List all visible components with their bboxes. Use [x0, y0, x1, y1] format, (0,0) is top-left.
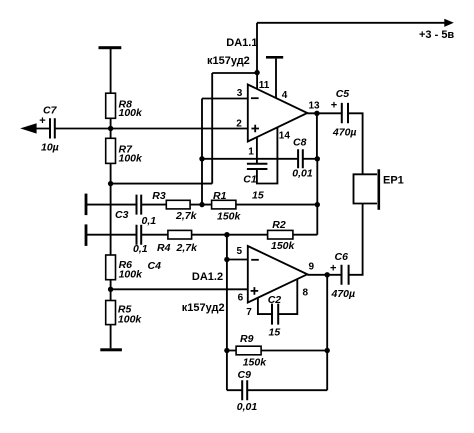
- resistor R1: [212, 190, 242, 223]
- capacitor C9: [237, 369, 258, 413]
- svg-text:9: 9: [309, 261, 315, 272]
- node output 9: [325, 272, 330, 277]
- svg-text:+: +: [331, 100, 337, 112]
- svg-text:150k: 150k: [217, 211, 242, 223]
- wire R4 to R2: [192, 234, 268, 236]
- svg-text:C1: C1: [243, 174, 257, 186]
- node supply DA1.1 pin 11: [254, 70, 259, 75]
- wire vertical x212 down: [211, 73, 213, 184]
- svg-text:15: 15: [252, 189, 264, 201]
- svg-text:R3: R3: [152, 190, 166, 202]
- wire left bus below R7: [110, 184, 112, 255]
- node bias (R8/R7/C7/pin2): [108, 126, 113, 131]
- resistor R6: [106, 255, 143, 280]
- wire pin 11 stub: [256, 73, 258, 89]
- svg-text:100k: 100k: [119, 152, 144, 164]
- resistor R2: [268, 219, 296, 252]
- svg-text:13: 13: [309, 100, 321, 111]
- capacitor C8: [292, 136, 313, 179]
- svg-text:+: +: [330, 262, 336, 274]
- wire output vertical x327 down: [326, 275, 328, 390]
- op-amp DA1.1: [207, 37, 307, 142]
- terminal bar C3 left: [85, 194, 88, 216]
- svg-text:C8: C8: [293, 136, 307, 148]
- capacitor C5: [331, 88, 357, 138]
- svg-text:к157уд2: к157уд2: [182, 302, 225, 314]
- capacitor C2: [268, 294, 282, 339]
- wire output 9 to C6: [307, 274, 341, 276]
- wire bar to C3: [87, 204, 137, 206]
- wire bar to C4: [87, 234, 137, 236]
- svg-text:3: 3: [237, 88, 243, 99]
- svg-text:к157уд2: к157уд2: [207, 55, 250, 67]
- node pin 5 tap: [224, 257, 229, 262]
- wire vertical x227 down: [226, 235, 228, 391]
- capacitor C1: [243, 164, 267, 202]
- wire output vertical x317: [316, 113, 318, 234]
- wire pin 7 stub: [258, 298, 272, 314]
- node R1 right: [315, 202, 320, 207]
- wire C7 to pin 2 of DA1.1: [55, 128, 248, 130]
- wire pin 1 stub: [256, 137, 258, 164]
- wire node to R7 and R7 to bottom node: [110, 129, 112, 184]
- svg-text:C9: C9: [238, 369, 252, 381]
- wire output 13 to C5: [307, 112, 342, 114]
- svg-text:2,7k: 2,7k: [176, 242, 199, 254]
- svg-text:8: 8: [303, 287, 309, 298]
- svg-text:10µ: 10µ: [41, 142, 59, 154]
- svg-text:EP1: EP1: [383, 175, 404, 187]
- terminal bar C4 left: [85, 224, 88, 246]
- wire feedback vertical x202: [201, 99, 203, 205]
- resistor R3: [152, 190, 197, 222]
- wire R8 to node: [110, 118, 112, 128]
- svg-text:6: 6: [238, 292, 244, 303]
- svg-text:150k: 150k: [271, 240, 296, 252]
- svg-text:DA1.2: DA1.2: [192, 271, 223, 283]
- resistor R7: [106, 138, 143, 164]
- wire R5 to ground bar: [110, 325, 112, 349]
- wire R2 right lead: [293, 234, 317, 236]
- svg-text:5: 5: [237, 246, 243, 257]
- svg-text:0,01: 0,01: [237, 401, 258, 413]
- svg-text:100k: 100k: [118, 314, 143, 326]
- svg-text:7: 7: [246, 307, 252, 318]
- svg-text:100k: 100k: [119, 107, 144, 119]
- wire C5 to EP1 top: [348, 113, 363, 174]
- node feedback C8 tap: [199, 156, 204, 161]
- wire top supply rail: [257, 22, 446, 24]
- svg-text:0,1: 0,1: [142, 215, 157, 227]
- ground bar below R5: [100, 348, 122, 351]
- resistor R5: [106, 301, 143, 326]
- svg-text:15: 15: [269, 327, 281, 339]
- capacitor C7: [33, 105, 59, 154]
- wire C8 to output vertical: [303, 158, 318, 160]
- svg-text:R1: R1: [213, 190, 227, 202]
- wire C1 to pin 14 loop: [257, 127, 278, 183]
- resistor R8: [106, 93, 143, 119]
- svg-text:R2: R2: [272, 219, 286, 231]
- node R7 bottom: [108, 181, 113, 186]
- svg-text:+: +: [39, 115, 45, 127]
- wire R3 to node: [190, 204, 212, 206]
- svg-text:C5: C5: [336, 88, 350, 100]
- wire C3 to R3: [141, 204, 166, 206]
- svg-text:150k: 150k: [243, 357, 268, 369]
- svg-text:470µ: 470µ: [331, 288, 356, 300]
- wire supply node to left: [212, 72, 257, 74]
- wire R1 right lead: [236, 204, 317, 206]
- capacitor C3: [115, 195, 156, 228]
- svg-text:C2: C2: [268, 294, 282, 306]
- svg-text:11: 11: [259, 80, 270, 91]
- wire C6 to EP1 bottom: [349, 204, 363, 275]
- resistor R4: [157, 230, 198, 253]
- wire C8 row left: [202, 158, 298, 160]
- svg-text:4: 4: [282, 90, 288, 101]
- node C8 right: [315, 156, 320, 161]
- wire pin 3 input: [202, 98, 248, 100]
- node R9 left: [224, 348, 229, 353]
- wire R9 leads: [227, 350, 327, 352]
- wire C9 row: [227, 389, 327, 391]
- wire bar to R8: [110, 49, 112, 93]
- node R9 right: [325, 348, 330, 353]
- svg-text:14: 14: [279, 131, 291, 142]
- svg-text:+3 - 5в: +3 - 5в: [419, 29, 454, 41]
- svg-text:DA1.1: DA1.1: [226, 37, 257, 49]
- wire pin 6 input: [111, 288, 248, 290]
- svg-text:2: 2: [236, 119, 242, 130]
- svg-text:R4: R4: [157, 242, 171, 254]
- svg-text:2,7k: 2,7k: [175, 210, 198, 222]
- terminal bar pin 4: [266, 56, 283, 59]
- wire R6 to node: [110, 280, 112, 301]
- svg-text:100k: 100k: [119, 268, 144, 280]
- node output 13: [314, 111, 319, 116]
- resistor R9: [236, 333, 267, 369]
- speaker EP1: [354, 169, 404, 210]
- node R6/R5 pin6 tap: [108, 287, 113, 292]
- arrow +3-5v: [419, 19, 454, 41]
- wire from rail down to DA1.1 supply node: [256, 23, 258, 73]
- svg-text:C6: C6: [335, 251, 349, 263]
- op-amp DA1.2: [182, 246, 307, 314]
- svg-text:1: 1: [248, 146, 254, 157]
- terminal bar above R8: [99, 46, 122, 49]
- svg-text:470µ: 470µ: [332, 126, 357, 138]
- wire pin 5 input: [227, 259, 248, 261]
- node R3/R1 junction: [199, 202, 204, 207]
- wire C4 to R4: [141, 234, 168, 236]
- input arrow left: [20, 123, 36, 133]
- node R4/R2 junction: [224, 232, 229, 237]
- svg-text:0,01: 0,01: [292, 168, 313, 180]
- capacitor C6: [330, 251, 355, 300]
- wire pin 4 stub: [275, 59, 277, 98]
- wire y183 to R7 bottom: [111, 183, 213, 185]
- svg-text:C4: C4: [148, 260, 162, 272]
- wire C2 to pin 8: [278, 279, 297, 314]
- svg-text:C3: C3: [115, 209, 129, 221]
- capacitor C4: [133, 225, 161, 273]
- svg-text:0,1: 0,1: [133, 243, 148, 255]
- svg-text:R9: R9: [240, 333, 254, 345]
